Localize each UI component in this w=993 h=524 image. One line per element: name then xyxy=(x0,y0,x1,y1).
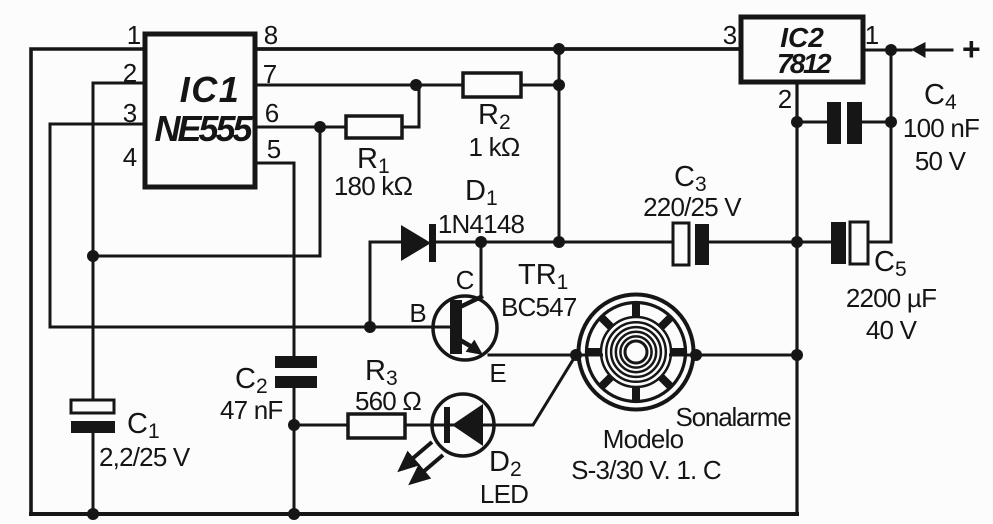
svg-text:Sonalarme: Sonalarme xyxy=(676,402,792,432)
junction pin6 / pin2 link xyxy=(314,121,326,133)
svg-text:47 nF: 47 nF xyxy=(220,395,283,425)
junction C3 / C5 / riser xyxy=(791,236,803,248)
wire LED right diagonal to speaker node xyxy=(494,355,576,425)
junction C2 column / R3 xyxy=(288,419,300,431)
IC1 NE555 xyxy=(145,34,255,187)
wire C2 to R3 xyxy=(294,424,348,427)
junction speaker wire / riser xyxy=(791,349,803,361)
capacitor C1 (electrolytic) xyxy=(71,400,115,433)
junction C1 / ground rail xyxy=(87,508,99,520)
junction top rail / V+ column xyxy=(553,43,565,55)
svg-text:Modelo: Modelo xyxy=(603,424,684,454)
svg-text:3: 3 xyxy=(123,98,137,128)
buzzer spokes xyxy=(565,281,706,422)
svg-text:C: C xyxy=(456,265,475,295)
svg-text:3: 3 xyxy=(723,20,737,50)
wire pin6 to R1 xyxy=(255,126,346,129)
svg-text:5: 5 xyxy=(267,134,281,164)
wire top-left rail pin1 xyxy=(31,49,145,514)
wire C4 left xyxy=(797,121,827,124)
IC2 7812 xyxy=(741,17,863,82)
junction C4 right / + column xyxy=(885,116,897,128)
junction D1 cathode / collector riser xyxy=(475,236,487,248)
junction speaker left / LED wire xyxy=(570,349,582,361)
capacitor C2 xyxy=(275,356,317,388)
resistor R2 xyxy=(463,73,521,97)
wire riser to C5 xyxy=(797,241,831,244)
wire pin8 top rail to IC2 pin3 xyxy=(255,47,741,51)
wire buzzer right stub xyxy=(669,354,696,357)
junction R2 right / V+ column xyxy=(553,79,565,91)
junction C2 column / ground rail xyxy=(288,508,300,520)
svg-text:1 kΩ: 1 kΩ xyxy=(469,132,520,162)
wire vertical node V+ xyxy=(558,49,561,242)
wire R2 right xyxy=(521,84,559,87)
wire buzzer left stub xyxy=(576,354,603,357)
wire C3 right to riser xyxy=(709,241,797,244)
junction speaker right xyxy=(690,349,702,361)
wire arrow tail xyxy=(925,49,952,52)
wire pin7 to R2 xyxy=(255,84,463,87)
junction C4 left / riser xyxy=(791,116,803,128)
svg-text:1: 1 xyxy=(127,20,141,50)
svg-text:LED: LED xyxy=(480,479,528,509)
svg-text:6: 6 xyxy=(265,98,279,128)
wire bottom ground rail xyxy=(31,512,797,516)
wire IC2 output to arrow xyxy=(863,49,911,52)
svg-text:180 kΩ: 180 kΩ xyxy=(334,171,413,201)
resistor R1 xyxy=(346,116,402,138)
svg-text:+: + xyxy=(962,31,981,67)
wire pin2-pin6 link xyxy=(93,127,320,256)
svg-text:40 V: 40 V xyxy=(866,315,918,345)
svg-text:7: 7 xyxy=(263,59,277,89)
wire R3 to LED xyxy=(405,424,432,427)
wire pin5 to C2 column xyxy=(255,163,294,356)
junction + input node xyxy=(885,44,897,56)
wire pin3 down and base wire xyxy=(50,124,433,327)
junction V+ column / C3 row xyxy=(553,236,565,248)
buzzer Sonalarme xyxy=(579,295,694,410)
svg-text:E: E xyxy=(489,358,506,388)
wire collector riser xyxy=(480,242,483,297)
svg-text:7812: 7812 xyxy=(777,48,832,79)
wire D1 anode branch xyxy=(370,242,403,327)
svg-text:BC547: BC547 xyxy=(501,292,577,322)
svg-text:IC1: IC1 xyxy=(180,69,241,110)
svg-text:NE555: NE555 xyxy=(154,108,253,149)
resistor R3 xyxy=(348,414,405,438)
wire C5 right up to + node xyxy=(868,49,891,242)
junction pin2 column / link xyxy=(87,250,99,262)
+ input arrow xyxy=(911,42,926,58)
LED D2 xyxy=(432,394,494,456)
svg-text:2200 µF: 2200 µF xyxy=(846,283,936,313)
junction pin7 / R1 riser xyxy=(410,79,422,91)
svg-text:B: B xyxy=(409,298,426,328)
LED arrows xyxy=(401,442,443,482)
svg-text:50 V: 50 V xyxy=(915,146,967,176)
svg-text:1N4148: 1N4148 xyxy=(438,209,525,239)
wire C2 bottom to ground xyxy=(293,388,296,514)
wire right riser from IC2 pin2 to bottom rail xyxy=(795,84,798,514)
wire D1 cathode row to C3 xyxy=(437,241,673,244)
wire speaker right to riser xyxy=(696,354,797,357)
svg-text:8: 8 xyxy=(264,20,278,50)
junction base wire / D1 anode xyxy=(364,321,376,333)
svg-text:100 nF: 100 nF xyxy=(903,113,979,143)
svg-text:2: 2 xyxy=(778,84,792,114)
svg-text:1: 1 xyxy=(865,20,879,50)
wire pin2 to C1 column xyxy=(93,83,145,400)
svg-text:S-3/30 V. 1. C: S-3/30 V. 1. C xyxy=(571,455,721,485)
svg-text:2,2/25 V: 2,2/25 V xyxy=(99,442,191,472)
svg-text:560 Ω: 560 Ω xyxy=(355,386,421,416)
svg-text:2: 2 xyxy=(123,58,137,88)
transistor Q1 TR1 BC547 xyxy=(433,296,497,360)
svg-text:220/25 V: 220/25 V xyxy=(643,192,742,222)
capacitor C4 xyxy=(827,102,862,144)
capacitor C5 (electrolytic) xyxy=(831,222,868,264)
capacitor C3 (electrolytic) xyxy=(673,223,709,265)
svg-text:4: 4 xyxy=(123,142,137,172)
wire C4 right xyxy=(861,121,891,124)
diode D1 1N4148 xyxy=(401,224,436,262)
wire C1 bottom to ground xyxy=(92,433,95,514)
wire emitter to speaker xyxy=(489,354,576,357)
wire R1 right to pin7 row xyxy=(402,85,419,127)
